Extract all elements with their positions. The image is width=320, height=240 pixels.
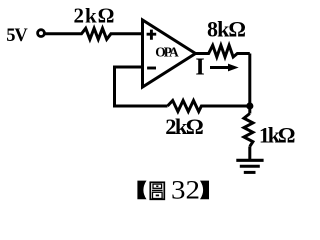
wire inverting input feedback loop	[115, 67, 168, 106]
current arrow	[210, 66, 230, 69]
wire input with resistor R1 zigzag	[44, 28, 142, 39]
svg-text:8kΩ: 8kΩ	[207, 16, 246, 41]
wire output with resistor R2 zigzag	[196, 45, 250, 57]
svg-text:1kΩ: 1kΩ	[259, 123, 296, 148]
wire junction to resistor R4	[248, 106, 251, 114]
svg-text:32: 32	[171, 175, 200, 205]
node junction dot	[246, 102, 253, 109]
svg-text:OPA: OPA	[155, 44, 179, 59]
caption glyph Tu (figure)	[150, 182, 164, 199]
op-amp U1 triangle	[143, 20, 196, 87]
caption left bracket	[137, 181, 146, 200]
op-amp plus input sign	[147, 30, 157, 40]
caption right bracket	[200, 181, 209, 200]
ground symbol	[236, 159, 263, 162]
svg-text:2kΩ: 2kΩ	[165, 114, 204, 139]
svg-text:5V: 5V	[6, 26, 28, 46]
terminal circle node IN	[38, 30, 45, 37]
svg-text:I: I	[195, 55, 204, 81]
op-amp minus input sign	[147, 67, 156, 70]
wire resistor R4 to ground	[248, 146, 251, 160]
svg-text:2kΩ: 2kΩ	[74, 3, 115, 27]
wire output vertical drop	[248, 54, 251, 107]
resistor R3 zigzag feedback	[168, 101, 250, 112]
resistor R4 zigzag vertical 1k	[244, 114, 253, 147]
